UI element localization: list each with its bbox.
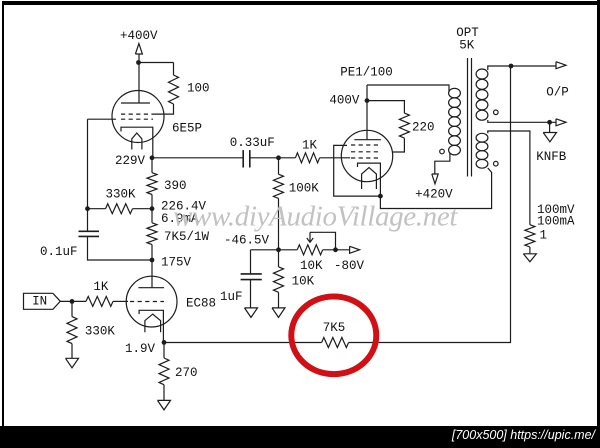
svg-text:7K5: 7K5 [323,321,346,335]
svg-text:+400V: +400V [120,29,158,43]
svg-text:O/P: O/P [546,85,569,99]
svg-text:EC88: EC88 [186,296,216,310]
svg-text:100: 100 [187,81,210,95]
svg-text:6E5P: 6E5P [172,121,202,135]
svg-text:IN: IN [32,295,47,309]
svg-text:10K: 10K [292,274,315,288]
svg-text:100K: 100K [289,181,320,195]
svg-text:400V: 400V [329,93,360,107]
svg-text:1: 1 [540,228,548,242]
svg-text:330K: 330K [106,187,137,201]
svg-text:KNFB: KNFB [536,150,567,164]
svg-text:220: 220 [412,120,435,134]
svg-text:175V: 175V [161,255,192,269]
svg-text:-46.5V: -46.5V [224,234,270,248]
svg-text:1K: 1K [302,138,318,152]
svg-text:1uF: 1uF [220,290,243,304]
svg-text:229V: 229V [115,154,146,168]
svg-text:1.9V: 1.9V [125,342,156,356]
svg-text:+420V: +420V [415,187,453,201]
svg-text:390: 390 [164,179,187,193]
svg-text:330K: 330K [85,324,116,338]
svg-text:www.diyAudioVillage.net: www.diyAudioVillage.net [173,201,458,233]
svg-text:270: 270 [175,366,198,380]
svg-text:5K: 5K [459,38,475,52]
svg-text:100mA: 100mA [537,214,575,228]
svg-text:10K: 10K [300,259,323,273]
svg-text:0.33uF: 0.33uF [230,136,275,150]
svg-text:-80V: -80V [334,259,365,273]
svg-text:PE1/100: PE1/100 [340,65,393,79]
svg-text:1K: 1K [93,280,109,294]
svg-text:0.1uF: 0.1uF [40,245,78,259]
